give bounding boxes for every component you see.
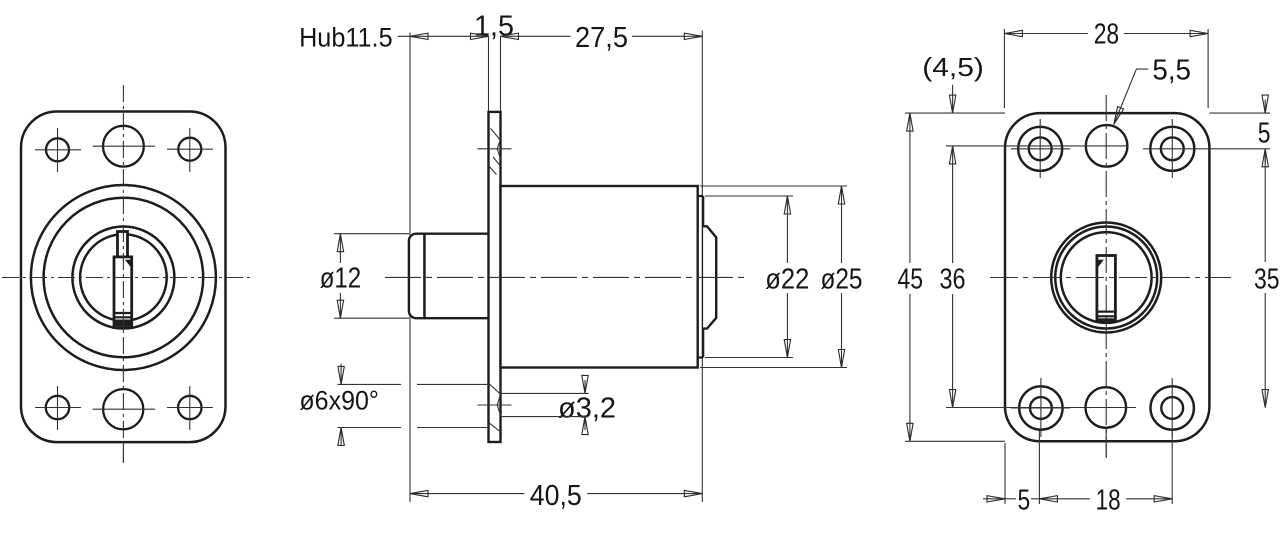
- svg-text:ø3,2: ø3,2: [558, 393, 616, 425]
- svg-text:36: 36: [940, 264, 966, 296]
- svg-text:28: 28: [1094, 19, 1120, 51]
- svg-text:27,5: 27,5: [575, 22, 628, 54]
- svg-text:18: 18: [1096, 484, 1121, 516]
- svg-text:40,5: 40,5: [530, 480, 582, 512]
- svg-text:ø25: ø25: [821, 263, 863, 295]
- svg-text:5: 5: [1258, 118, 1271, 150]
- svg-text:ø12: ø12: [320, 263, 362, 295]
- svg-text:45: 45: [898, 264, 924, 296]
- svg-text:ø22: ø22: [765, 263, 809, 295]
- svg-text:Hub11.5: Hub11.5: [299, 23, 393, 53]
- svg-text:(4,5): (4,5): [922, 52, 984, 82]
- svg-text:5: 5: [1018, 484, 1031, 516]
- svg-text:ø6x90°: ø6x90°: [299, 386, 379, 416]
- svg-text:35: 35: [1254, 264, 1280, 296]
- svg-text:5,5: 5,5: [1152, 55, 1191, 87]
